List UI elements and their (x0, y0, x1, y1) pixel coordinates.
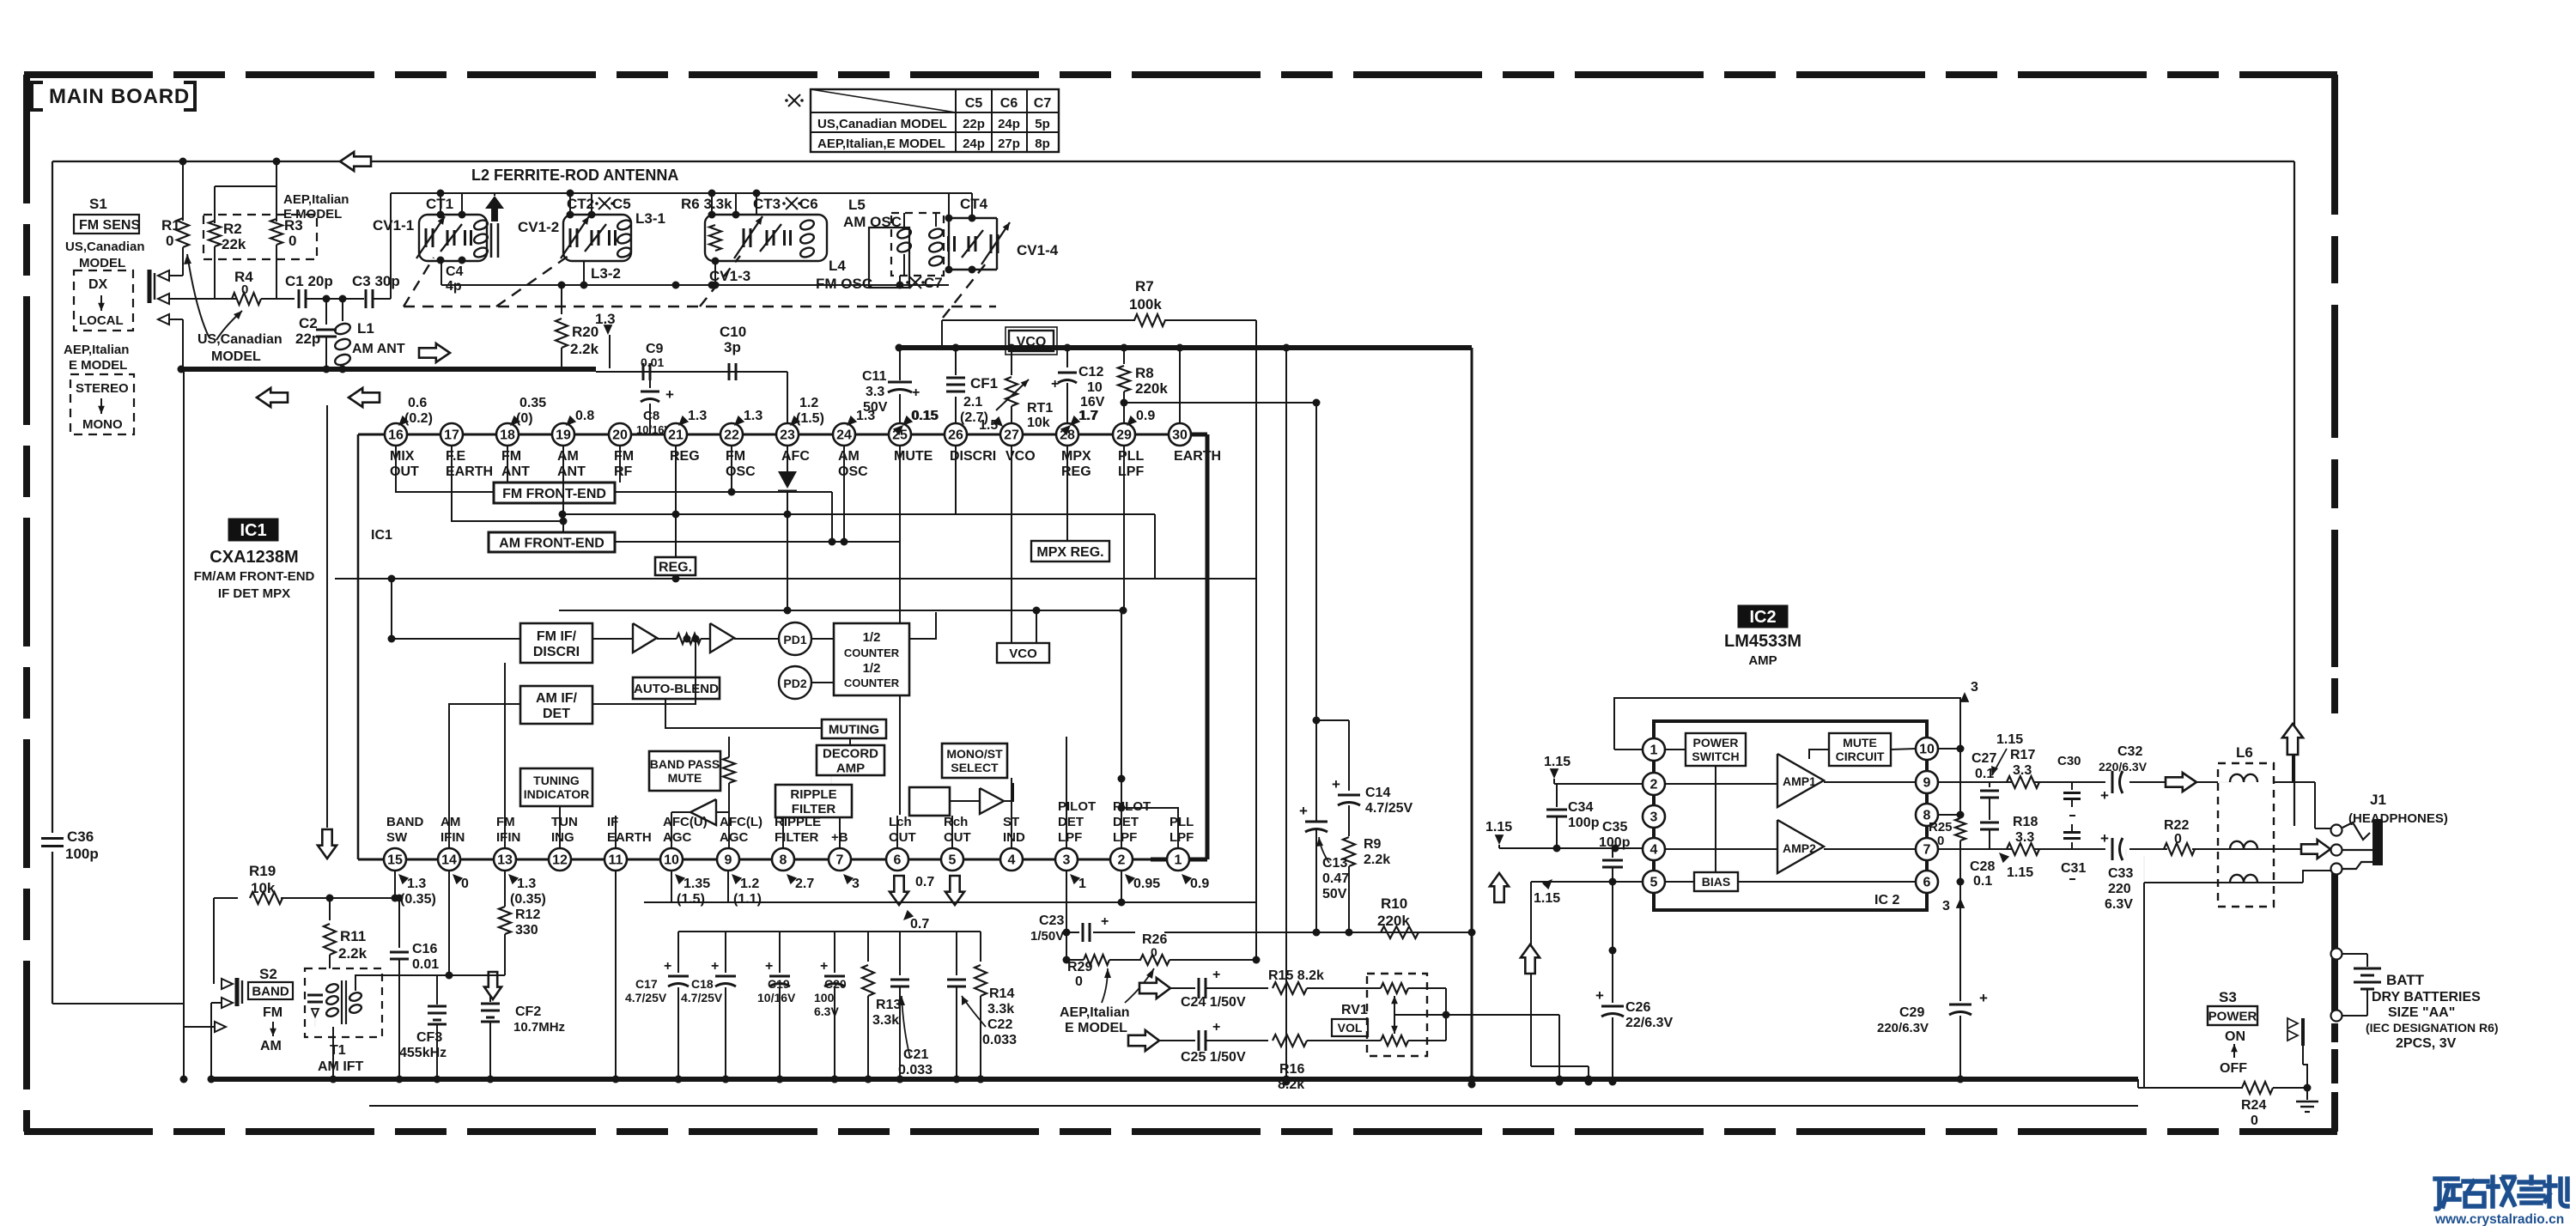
node bus left (178, 366, 185, 373)
wire AM front-end right (615, 541, 900, 543)
svg-text:17: 17 (444, 428, 459, 443)
wire right rail (2293, 161, 2295, 826)
svg-text:0.7: 0.7 (910, 917, 929, 932)
svg-text:0: 0 (2251, 1114, 2258, 1128)
capacitor C35 (1612, 848, 1613, 858)
pin 30 IC1 (1169, 423, 1191, 446)
capacitor C1 (298, 289, 301, 308)
wire pin1 in (1665, 749, 1686, 750)
svg-text:SELECT: SELECT (951, 761, 999, 774)
wire PD1 counter (811, 638, 834, 640)
svg-text:100p: 100p (65, 846, 99, 862)
jack J1 sleeve contact (2331, 864, 2342, 875)
pin 19 IC1 (552, 423, 574, 446)
switch S1 contact lower (158, 314, 169, 325)
node top rail junction R3 (273, 158, 281, 166)
resistor R14 (980, 932, 981, 962)
wire pin30 up (1179, 348, 1181, 423)
svg-text:R15 8.2k: R15 8.2k (1268, 968, 1324, 983)
resistor discri (677, 634, 701, 644)
svg-text:AEP,Italian: AEP,Italian (64, 343, 129, 357)
svg-text:IC 2: IC 2 (1874, 893, 1899, 907)
resistor R15 (1273, 982, 1307, 994)
svg-text:C8: C8 (643, 409, 659, 423)
wire pin4 feed (1499, 847, 1643, 849)
amp triangle A1 (633, 623, 657, 652)
callout C21 (902, 996, 910, 1058)
pin 3 IC2 (1643, 805, 1665, 828)
pin 8 IC2 (1916, 804, 1938, 826)
svg-text:FM SENS: FM SENS (79, 218, 140, 233)
switch S3 contacts (2301, 1018, 2305, 1046)
box RIPPLE FILTER (775, 785, 852, 817)
svg-text:0.6: 0.6 (408, 396, 427, 410)
border dashed frame (24, 71, 2337, 78)
svg-text:ST: ST (1003, 815, 1019, 829)
svg-text:11: 11 (609, 853, 623, 868)
node pin10 out (1938, 748, 1960, 750)
filter CF2 (489, 975, 491, 1002)
box POWER SWITCH (1686, 733, 1746, 766)
svg-text:F.E: F.E (446, 449, 465, 464)
wire amif out (592, 639, 696, 704)
wire pin2 feed (1554, 783, 1643, 785)
bus VCO rail (899, 345, 1472, 350)
callout C22 (962, 996, 986, 1027)
svg-text:OUT: OUT (889, 830, 916, 845)
svg-text:OUT: OUT (390, 464, 419, 479)
jack J1 ring contact (2331, 845, 2342, 856)
resistor R2 (214, 186, 216, 223)
svg-text:4.7/25V: 4.7/25V (1365, 801, 1413, 816)
wire ps bias (1715, 766, 1716, 872)
svg-text:LM4533M: LM4533M (1724, 632, 1801, 651)
capacitor C14 (1348, 720, 1350, 791)
pin 11 IC1 (605, 848, 627, 871)
svg-text:FM FRONT-END: FM FRONT-END (502, 487, 606, 501)
arrow below pin6 (890, 876, 908, 905)
box AM FRONT-END (489, 532, 615, 552)
junction dots discri rail (672, 575, 680, 583)
wire R7 bypass (942, 319, 1135, 321)
svg-text:R3: R3 (284, 217, 303, 234)
pin 15 IC1 (384, 848, 406, 871)
pin 5 IC1 (941, 848, 963, 871)
wire t1 sec link (355, 975, 437, 991)
pin 10 IC2 (1916, 737, 1938, 760)
box AUTO-BLEND (633, 677, 720, 699)
svg-text:RIPPLE: RIPPLE (775, 815, 821, 829)
svg-text:R29: R29 (1067, 960, 1092, 974)
svg-text:220/6.3V: 220/6.3V (1877, 1021, 1929, 1035)
resistor R8 (1123, 348, 1125, 364)
resistor R24 (2138, 1087, 2243, 1089)
resistor R13 (867, 932, 869, 962)
svg-text:S1: S1 (89, 196, 107, 212)
amp triangle A2 (710, 623, 734, 652)
capacitor C12 (1066, 348, 1068, 367)
svg-text:ANT: ANT (557, 464, 586, 479)
svg-text:C22: C22 (987, 1017, 1012, 1032)
transformer T1 dashed box (305, 968, 382, 1037)
wire pin2 down (1121, 871, 1122, 902)
svg-text:220/6.3V: 220/6.3V (2099, 760, 2148, 774)
wire pin26 up (955, 348, 957, 375)
svg-text:VCO: VCO (1009, 646, 1037, 661)
svg-text:10k: 10k (1027, 416, 1050, 430)
svg-text:100k: 100k (1129, 296, 1162, 313)
svg-text:R19: R19 (249, 863, 276, 879)
pin 2 IC1 (1110, 848, 1133, 871)
svg-text:C24 1/50V: C24 1/50V (1181, 995, 1246, 1010)
label C7 star (909, 276, 921, 288)
svg-text:(0.35): (0.35) (510, 892, 546, 907)
pin 21 IC1 (665, 423, 687, 446)
svg-text:3: 3 (1971, 680, 1978, 695)
svg-text:3.3k: 3.3k (987, 1002, 1014, 1017)
resistor R1 (182, 161, 184, 221)
inductor tank1 coil (473, 219, 489, 232)
svg-text:BIAS: BIAS (1702, 875, 1730, 889)
node top rail junction R1 (179, 158, 187, 166)
svg-text:0.47: 0.47 (1322, 871, 1349, 886)
svg-text:R12: R12 (515, 907, 540, 922)
svg-text:27: 27 (1004, 428, 1019, 443)
jack J1 tip contact (2331, 825, 2342, 836)
svg-text:1/2: 1/2 (863, 661, 881, 676)
svg-text:+: + (1595, 987, 1604, 1004)
svg-text:US,Canadian MODEL: US,Canadian MODEL (817, 117, 947, 131)
svg-text:24p: 24p (998, 117, 1020, 131)
svg-text:3: 3 (852, 877, 860, 891)
wire pin25 down (899, 446, 901, 623)
resistor R29 (1066, 959, 1084, 961)
svg-text:LPF: LPF (1118, 464, 1144, 479)
svg-text:13: 13 (497, 853, 513, 868)
svg-text:1.15: 1.15 (1996, 732, 2023, 747)
svg-text:22: 22 (724, 428, 739, 443)
svg-text:2.2k: 2.2k (338, 945, 368, 962)
arrow pin7 chain (2301, 840, 2330, 859)
svg-text:SWITCH: SWITCH (1692, 750, 1739, 763)
capacitor C8 (649, 372, 651, 388)
svg-text:R14: R14 (989, 986, 1014, 1001)
svg-text:C6: C6 (799, 196, 818, 212)
wire pin5 up (951, 816, 953, 848)
capacitor C26 (1612, 882, 1613, 1003)
inductor L3-1 coil (617, 219, 633, 232)
wire pin6 up (896, 816, 898, 848)
svg-text:REG: REG (1061, 464, 1091, 479)
svg-text:FM: FM (726, 449, 745, 464)
pin 6 IC2 (1916, 871, 1938, 893)
svg-text:1.35: 1.35 (683, 877, 710, 891)
capacitor C10 (728, 363, 731, 380)
svg-text:AFC(L): AFC(L) (720, 815, 762, 829)
pin 9 IC1 (717, 848, 739, 871)
callout arrow to R4 (216, 311, 242, 340)
svg-text:R24: R24 (2241, 1098, 2266, 1113)
pin 4 IC1 (1000, 848, 1023, 871)
svg-text:C2: C2 (299, 315, 318, 331)
wire pin28 to mpx (1066, 446, 1068, 541)
svg-text:C26: C26 (1625, 1000, 1650, 1015)
wire pin16 to FM front-end (396, 446, 494, 492)
triangle ST (980, 788, 1004, 814)
svg-text:AM FRONT-END: AM FRONT-END (499, 536, 605, 550)
amp AMP1 (1777, 754, 1824, 807)
svg-text:22/6.3V: 22/6.3V (1625, 1016, 1673, 1030)
svg-text:AM IF/: AM IF/ (536, 691, 578, 706)
pin 22 IC1 (720, 423, 743, 446)
svg-text:L2 FERRITE-ROD ANTENNA: L2 FERRITE-ROD ANTENNA (471, 167, 678, 184)
svg-text:0.9: 0.9 (1190, 877, 1209, 891)
wire lower jack line (2144, 882, 2303, 883)
svg-text:DET: DET (543, 707, 570, 721)
model dashed box R2 R3 (204, 215, 317, 259)
svg-text:RF: RF (614, 464, 633, 479)
svg-text:0: 0 (2174, 832, 2182, 847)
capacitor tank4 cap (947, 236, 950, 252)
svg-text:(1.1): (1.1) (733, 892, 762, 907)
pin 1 IC1 (1167, 848, 1189, 871)
resistor R16 (1273, 1035, 1307, 1047)
svg-text:OSC: OSC (726, 464, 756, 479)
svg-text:(HEADPHONES): (HEADPHONES) (2348, 811, 2448, 826)
svg-text:C18: C18 (691, 977, 714, 991)
svg-text:1: 1 (1078, 877, 1086, 891)
svg-text:IF: IF (607, 815, 618, 829)
resistor R19 (214, 897, 238, 899)
wire pin27 down (1011, 446, 1012, 643)
pin 24 IC1 (833, 423, 855, 446)
svg-text:6.3V: 6.3V (2105, 897, 2133, 912)
capacitor C11 (888, 381, 912, 384)
svg-text:C9: C9 (646, 342, 664, 356)
wire tank2 bottom (583, 261, 585, 285)
wire pin20 down (619, 446, 621, 483)
capacitor C33 (2111, 838, 2114, 860)
svg-text:8: 8 (780, 853, 787, 868)
capacitor C3 (365, 289, 368, 308)
svg-text:TUNING: TUNING (533, 774, 580, 787)
battery junction lower (2331, 1011, 2342, 1022)
resistor R10 (1381, 926, 1419, 938)
wire amp2 out (1824, 848, 1916, 850)
wire pin11 up (615, 816, 617, 848)
box FM FRONT-END (494, 483, 615, 503)
wire antenna line (170, 298, 236, 300)
wire c13 top (1316, 719, 1349, 721)
svg-text:R22: R22 (2164, 818, 2189, 833)
wire pin3 up (1066, 737, 1067, 848)
wire pin9 line (1938, 781, 2012, 783)
wire pin2 in (1665, 783, 1777, 785)
wire mute out (1891, 749, 1916, 750)
IC2 outer wire (1614, 698, 1960, 750)
svg-text:1.15: 1.15 (1544, 755, 1571, 769)
pot RV1 lower (1367, 1040, 1381, 1041)
pin 18 IC1 (496, 423, 519, 446)
svg-text:3.3: 3.3 (2013, 763, 2032, 778)
wire to pin23 diode (787, 372, 788, 423)
arrow above CF2 (484, 972, 501, 999)
svg-text:REG.: REG. (659, 560, 692, 574)
svg-text:4.7/25V: 4.7/25V (681, 991, 723, 1004)
pin 28 IC1 (1056, 423, 1078, 446)
svg-text:PD2: PD2 (783, 677, 806, 690)
battery BATT (2342, 953, 2367, 955)
resistor R20 (561, 285, 562, 314)
ground symbol (2306, 1088, 2308, 1100)
svg-text:7: 7 (836, 853, 844, 868)
box MONO/ST SELECT (942, 743, 1007, 778)
svg-text:VOL: VOL (1338, 1021, 1363, 1035)
svg-text:CV1-2: CV1-2 (518, 219, 559, 235)
svg-text:C28: C28 (1970, 859, 1995, 874)
svg-text:C21: C21 (903, 1047, 928, 1062)
svg-text:FILTER: FILTER (775, 830, 819, 845)
pot RT1 (1011, 348, 1012, 375)
svg-text:C12: C12 (1078, 365, 1103, 379)
capacitor C34 (1556, 784, 1558, 807)
svg-text:DET: DET (1113, 815, 1139, 829)
svg-text:10/16V: 10/16V (757, 991, 796, 1004)
arrow c25 (1128, 1030, 1159, 1051)
wire pin19 down (562, 446, 564, 532)
IC1 outline (358, 434, 1207, 436)
svg-text:1: 1 (1650, 743, 1658, 758)
svg-text:PD1: PD1 (783, 633, 806, 646)
svg-text:0.95: 0.95 (1133, 877, 1160, 891)
svg-text:CT3: CT3 (753, 196, 781, 212)
wire bus drop 1498 (1285, 348, 1287, 1082)
pin 12 IC1 (549, 848, 571, 871)
svg-text:19: 19 (556, 428, 571, 443)
svg-text:DISCRI: DISCRI (950, 449, 996, 464)
wire muting link (849, 738, 851, 745)
wire pin4 up (1011, 778, 1012, 848)
svg-text:0.35: 0.35 (519, 396, 546, 410)
pin 9 IC2 (1916, 771, 1938, 793)
capacitor C30 (2071, 782, 2073, 790)
svg-text:ANT: ANT (501, 464, 530, 479)
svg-text:0.9: 0.9 (1136, 409, 1155, 423)
svg-text:C7: C7 (1034, 96, 1052, 111)
gang diagonal CV1-4 (943, 259, 989, 318)
inductor L4 coil (799, 219, 816, 232)
pin 29 IC1 (1113, 423, 1135, 446)
wire discri rail (562, 513, 1155, 515)
wire arrow tail (2292, 755, 2293, 782)
svg-text:DET: DET (1058, 815, 1084, 829)
svg-text:+: + (1051, 377, 1059, 391)
svg-text:CV1-4: CV1-4 (1017, 242, 1059, 258)
wire lch rail (644, 901, 1256, 903)
svg-text:220k: 220k (1377, 913, 1410, 929)
wire bus drop 1714 (1471, 348, 1473, 1084)
wire pin8 up (782, 817, 784, 848)
box BIAS (1694, 872, 1738, 891)
svg-text:PLL: PLL (1170, 815, 1194, 829)
wire rch rail (678, 931, 981, 932)
svg-text:AEP,Italian: AEP,Italian (1060, 1005, 1130, 1020)
wire mpx drop 1533 (1315, 403, 1317, 821)
svg-text:R6 3.3k: R6 3.3k (681, 196, 732, 212)
pin 2 IC2 (1643, 773, 1665, 795)
wire PD2 counter (811, 682, 834, 683)
svg-text:0.8: 0.8 (575, 409, 594, 423)
pin 20 IC1 (609, 423, 631, 446)
svg-text:(IEC DESIGNATION R6): (IEC DESIGNATION R6) (2366, 1021, 2499, 1035)
svg-text:0.15: 0.15 (911, 409, 938, 423)
wire sub rail C9 C10 (596, 371, 787, 373)
transformer T1 core (341, 980, 343, 1024)
svg-text:LOCAL: LOCAL (79, 313, 124, 328)
svg-text:AM: AM (260, 1039, 282, 1053)
svg-text:C20: C20 (824, 977, 847, 991)
svg-text:0: 0 (289, 233, 296, 249)
wire pin18 down (507, 446, 508, 483)
svg-text:24: 24 (836, 428, 852, 443)
wire autoblend down (665, 699, 822, 728)
svg-text:C3 30p: C3 30p (352, 273, 400, 289)
bus AM rail (181, 367, 596, 372)
wire pin9 down (727, 871, 729, 902)
svg-text:RV1: RV1 (1341, 1003, 1368, 1017)
svg-text:330: 330 (515, 923, 538, 938)
junction dots r10 rail (1063, 956, 1071, 964)
pin 6 IC1 (886, 848, 908, 871)
svg-text:27p: 27p (998, 137, 1020, 151)
svg-text:455kHz: 455kHz (399, 1046, 447, 1060)
wire pin14 down (448, 871, 450, 975)
box MUTING (822, 719, 886, 738)
svg-text:R7: R7 (1135, 278, 1154, 294)
svg-text:AM: AM (838, 449, 860, 464)
svg-text:POWER: POWER (2208, 1009, 2257, 1023)
svg-text:C11: C11 (862, 369, 887, 384)
svg-text:POWER: POWER (1693, 736, 1739, 750)
box VCO lower (997, 643, 1049, 663)
resistor R4 (232, 293, 261, 305)
svg-text:1.2: 1.2 (740, 877, 759, 891)
voltage 1.15 lower (1542, 879, 1552, 889)
filter CF3 (436, 975, 438, 1004)
svg-text:C5: C5 (965, 96, 983, 111)
svg-text:L5: L5 (848, 197, 866, 213)
svg-text:RT1: RT1 (1027, 401, 1053, 416)
wire pin9 to jack (2274, 781, 2315, 783)
svg-text:22k: 22k (222, 236, 246, 252)
svg-text:MIX: MIX (390, 449, 415, 464)
svg-text:IND: IND (1003, 830, 1025, 845)
node bus L1 (339, 366, 347, 373)
inductor tank4 coil (928, 228, 945, 240)
capacitor C27 (1989, 782, 1990, 787)
pin 25 IC1 (889, 423, 911, 446)
arrow up below 1.15 (1490, 873, 1509, 902)
arrow pin9 chain (2166, 773, 2196, 792)
svg-text:IC1: IC1 (240, 521, 266, 540)
svg-text:0: 0 (1075, 974, 1083, 989)
svg-text:6: 6 (1923, 876, 1931, 890)
svg-text:1.15: 1.15 (1485, 820, 1512, 835)
svg-text:COUNTER: COUNTER (844, 677, 900, 689)
svg-text:(0.2): (0.2) (404, 411, 433, 426)
wire pin17 down (452, 446, 563, 521)
svg-text:22p: 22p (963, 117, 985, 131)
